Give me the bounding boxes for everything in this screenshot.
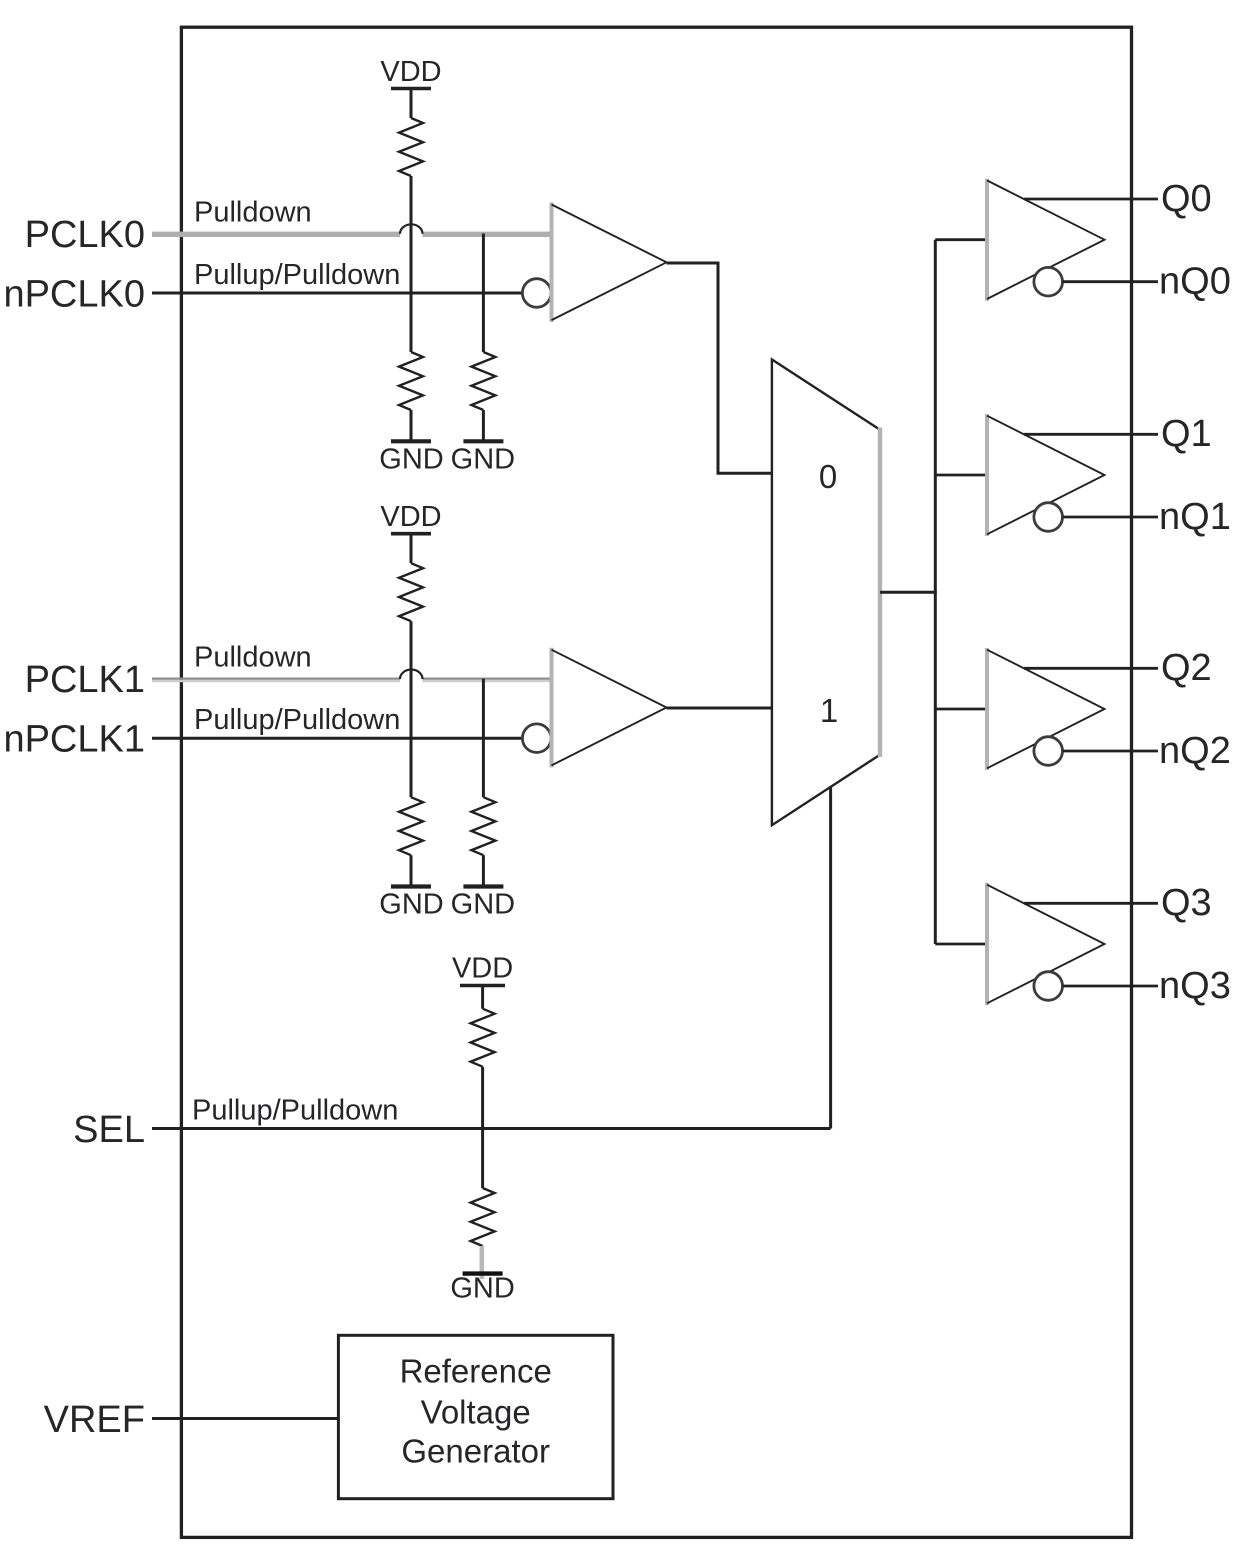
resistor (SEL pullup) [471, 1009, 495, 1067]
svg-text:Q1: Q1 [1161, 413, 1212, 455]
wire hop (PCLK1 over pullup wire) [400, 670, 423, 680]
wire nQ1 [1063, 516, 1158, 519]
svg-text:Q3: Q3 [1161, 882, 1212, 924]
wire SEL pulldown vertical [481, 1129, 484, 1189]
svg-text:nQ1: nQ1 [1159, 496, 1231, 538]
svg-text:Pulldown: Pulldown [194, 197, 312, 229]
resistor (SEL pulldown) [471, 1188, 495, 1246]
svg-text:Pullup/Pulldown: Pullup/Pulldown [194, 259, 400, 291]
svg-text:Voltage: Voltage [421, 1394, 531, 1431]
wire Q0 [1024, 198, 1158, 201]
reference voltage generator block [338, 1335, 613, 1498]
mux (2:1 clock select) [772, 360, 880, 826]
svg-text:nQ2: nQ2 [1159, 730, 1231, 772]
wire input stub output buffer Q0 [935, 238, 987, 241]
wire Q1 [1024, 433, 1158, 436]
svg-text:VDD: VDD [380, 501, 441, 533]
wire output distribution [934, 240, 937, 944]
resistor (nPCLK0 pulldown) [399, 352, 423, 410]
svg-text:GND: GND [379, 889, 443, 921]
svg-text:Generator: Generator [401, 1433, 550, 1470]
chip outline [181, 27, 1131, 1537]
ground GND (PCLK1 pulldown) [451, 855, 515, 921]
inversion bubble nQ0 [1034, 267, 1063, 296]
wire nPCLK0 pullup/pulldown vertical [410, 176, 413, 352]
output buffer Q2/nQ2 [987, 648, 1105, 770]
svg-text:nQ0: nQ0 [1159, 261, 1231, 303]
wire input stub output buffer Q3 [935, 943, 987, 946]
svg-text:GND: GND [450, 1273, 514, 1305]
inversion bubble (input buffer 1) [522, 724, 551, 753]
wire input stub output buffer Q1 [935, 474, 987, 477]
svg-text:PCLK1: PCLK1 [25, 659, 145, 701]
output buffer Q0/nQ0 [987, 179, 1105, 301]
svg-text:Reference: Reference [400, 1352, 552, 1389]
svg-text:Q2: Q2 [1161, 647, 1212, 689]
inversion bubble nQ2 [1034, 737, 1063, 766]
wire PCLK0 (gray) [152, 232, 553, 237]
svg-text:Pulldown: Pulldown [194, 642, 312, 674]
wire PCLK1 pulldown vertical [482, 679, 485, 798]
svg-text:nPCLK0: nPCLK0 [3, 274, 145, 316]
inversion bubble nQ1 [1034, 503, 1063, 532]
wire buffer0 output to mux input 0 [667, 263, 772, 473]
wire Q2 [1024, 667, 1158, 670]
wire nPCLK1 pullup/pulldown vertical [410, 621, 413, 797]
wire SEL to mux select input [829, 787, 832, 1129]
svg-text:PCLK0: PCLK0 [25, 214, 145, 256]
wire nQ2 [1063, 750, 1158, 753]
resistor (nPCLK0 pullup) [399, 118, 423, 176]
output buffer Q3/nQ3 [987, 883, 1105, 1005]
svg-text:GND: GND [451, 444, 515, 476]
wire SEL pullup to SEL line [481, 1067, 484, 1129]
wire buffer1 output to mux input 1 [667, 707, 772, 710]
svg-text:nPCLK1: nPCLK1 [3, 719, 145, 761]
svg-text:nQ3: nQ3 [1159, 965, 1231, 1007]
wire input stub output buffer Q2 [935, 708, 987, 711]
wire PCLK0 pulldown vertical [482, 234, 485, 353]
svg-text:Q0: Q0 [1161, 178, 1212, 220]
inversion bubble nQ3 [1034, 972, 1063, 1001]
ground GND (SEL pulldown) [450, 1246, 514, 1305]
resistor (PCLK0 pulldown) [471, 352, 495, 410]
svg-text:GND: GND [451, 889, 515, 921]
resistor (PCLK1 pulldown) [471, 797, 495, 855]
wire mux output [880, 591, 937, 594]
svg-text:Pullup/Pulldown: Pullup/Pulldown [194, 704, 400, 736]
wire nPCLK0 [152, 292, 523, 295]
input buffer 1 (PCLK1/nPCLK1 receiver) [552, 648, 667, 768]
svg-text:1: 1 [820, 692, 838, 729]
wire hop (PCLK0 over pullup wire) [400, 224, 423, 234]
wire VREF [152, 1417, 338, 1420]
ground GND (nPCLK1 pulldown) [379, 855, 443, 921]
wire PCLK1 (gray) [152, 679, 553, 681]
svg-text:VREF: VREF [44, 1399, 145, 1441]
resistor (nPCLK1 pulldown) [399, 797, 423, 855]
svg-text:0: 0 [819, 458, 837, 495]
wire nQ0 [1063, 280, 1158, 283]
svg-text:VDD: VDD [452, 953, 513, 985]
ground GND (nPCLK0 pulldown) [379, 410, 443, 476]
wire nPCLK1 [152, 737, 523, 740]
input buffer 0 (PCLK0/nPCLK0 receiver) [552, 203, 667, 323]
inversion bubble (input buffer 0) [522, 279, 551, 308]
VDD symbol (SEL pullup) [452, 953, 513, 1009]
wire Q3 [1024, 902, 1158, 905]
ground GND (PCLK0 pulldown) [451, 410, 515, 476]
svg-text:VDD: VDD [380, 56, 441, 88]
VDD symbol (nPCLK1 pullup) [380, 501, 441, 563]
wire SEL [152, 1127, 831, 1130]
wire nQ3 [1063, 985, 1158, 988]
svg-text:GND: GND [379, 444, 443, 476]
svg-text:Pullup/Pulldown: Pullup/Pulldown [192, 1095, 398, 1127]
VDD symbol (nPCLK0 pullup) [380, 56, 441, 118]
svg-text:SEL: SEL [73, 1109, 145, 1151]
output buffer Q1/nQ1 [987, 414, 1105, 536]
resistor (nPCLK1 pullup) [399, 563, 423, 621]
